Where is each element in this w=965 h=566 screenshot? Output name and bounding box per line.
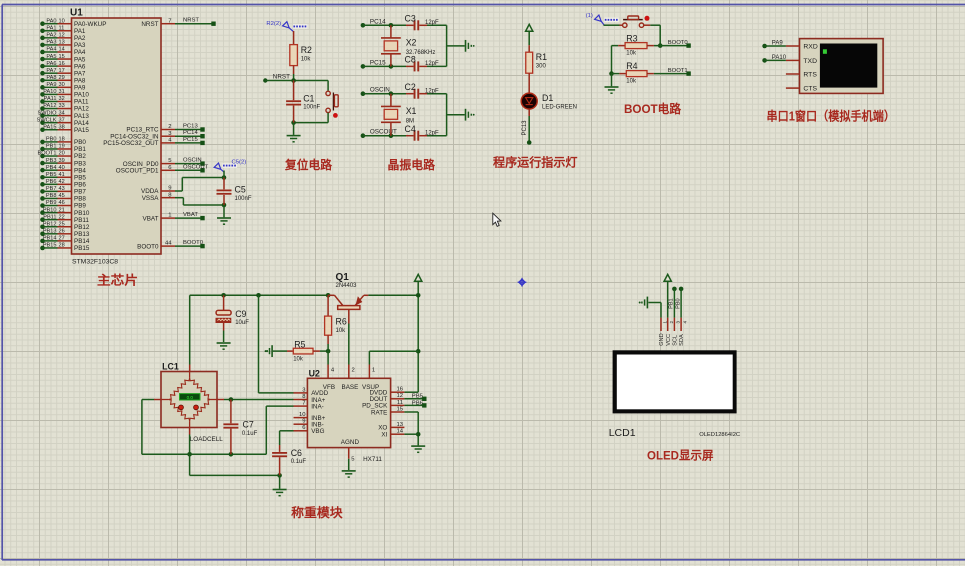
svg-text:RATE: RATE	[371, 409, 387, 416]
svg-text:PB15: PB15	[74, 245, 90, 252]
svg-text:PA2: PA2	[46, 33, 56, 39]
svg-text:PA3: PA3	[74, 42, 86, 49]
svg-text:27: 27	[59, 236, 65, 242]
svg-text:PA9: PA9	[74, 85, 86, 92]
svg-text:PB1: PB1	[74, 146, 86, 153]
svg-text:PA15: PA15	[43, 124, 56, 130]
svg-text:PB13: PB13	[43, 229, 57, 235]
svg-text:OLED12864I2C: OLED12864I2C	[699, 432, 740, 438]
svg-text:PB3: PB3	[74, 160, 86, 167]
svg-text:4: 4	[682, 321, 687, 324]
svg-text:PB8: PB8	[46, 193, 57, 199]
svg-text:32: 32	[59, 96, 65, 102]
svg-text:U1: U1	[70, 8, 83, 19]
svg-text:PB6: PB6	[46, 179, 57, 185]
svg-text:PB6: PB6	[74, 182, 86, 189]
svg-text:PA7: PA7	[46, 68, 56, 74]
svg-text:39: 39	[59, 158, 65, 164]
svg-text:4: 4	[331, 367, 335, 373]
svg-text:9: 9	[168, 186, 171, 192]
svg-text:PA0-WKUP: PA0-WKUP	[74, 21, 106, 28]
svg-text:RTS: RTS	[803, 71, 817, 78]
svg-text:CTS: CTS	[803, 86, 817, 93]
svg-text:PC15: PC15	[183, 137, 198, 143]
svg-text:晶振电路: 晶振电路	[388, 157, 436, 172]
svg-text:PB0: PB0	[74, 139, 86, 146]
svg-text:PB7: PB7	[46, 186, 57, 192]
svg-text:C5(2): C5(2)	[232, 159, 247, 165]
svg-text:PA5: PA5	[74, 56, 86, 63]
svg-text:100nF: 100nF	[235, 196, 252, 202]
svg-text:BOOT0: BOOT0	[183, 240, 204, 246]
svg-text:PA14: PA14	[74, 120, 89, 127]
svg-text:HX711: HX711	[363, 456, 382, 463]
svg-text:12pF: 12pF	[425, 20, 439, 26]
svg-text:3: 3	[676, 321, 681, 324]
svg-text:7: 7	[302, 401, 305, 407]
svg-text:20: 20	[59, 151, 65, 157]
svg-text:C7: C7	[243, 419, 254, 429]
svg-text:PB4: PB4	[74, 167, 86, 174]
svg-text:30: 30	[59, 82, 65, 88]
svg-text:XI: XI	[381, 432, 387, 439]
svg-text:32.768KHz: 32.768KHz	[406, 50, 436, 56]
svg-text:NRST: NRST	[183, 18, 199, 24]
svg-text:PB5: PB5	[412, 393, 424, 399]
svg-text:PA1: PA1	[46, 25, 56, 31]
svg-text:PA4: PA4	[74, 49, 86, 56]
svg-text:R4: R4	[626, 61, 637, 71]
svg-text:PB6: PB6	[412, 400, 424, 406]
svg-text:PB10: PB10	[43, 207, 57, 213]
svg-text:PA10: PA10	[43, 89, 56, 95]
svg-text:14: 14	[59, 47, 65, 53]
svg-text:PC15-OSC32_OUT: PC15-OSC32_OUT	[103, 140, 158, 147]
svg-text:X2: X2	[406, 37, 417, 47]
svg-text:VSSA: VSSA	[142, 195, 160, 202]
svg-text:44: 44	[165, 241, 172, 247]
svg-text:PA5: PA5	[46, 54, 56, 60]
svg-text:BOOT0: BOOT0	[137, 243, 159, 250]
svg-text:STM32F103C8: STM32F103C8	[72, 259, 118, 266]
svg-text:主芯片: 主芯片	[97, 273, 138, 288]
svg-text:C1: C1	[303, 93, 314, 103]
svg-text:OSCIN: OSCIN	[183, 158, 202, 164]
svg-text:10k: 10k	[336, 328, 347, 334]
svg-text:RXD: RXD	[803, 43, 817, 50]
svg-text:1: 1	[168, 213, 171, 219]
svg-text:37: 37	[59, 117, 65, 123]
svg-text:PC14: PC14	[370, 18, 386, 25]
svg-text:16: 16	[59, 61, 65, 67]
svg-text:X1: X1	[406, 106, 417, 116]
svg-text:(1): (1)	[586, 13, 593, 19]
svg-text:PB5: PB5	[74, 174, 86, 181]
svg-text:PB1: PB1	[46, 144, 57, 150]
svg-text:SWCLK: SWCLK	[37, 117, 57, 123]
svg-text:PA6: PA6	[74, 63, 86, 70]
svg-text:PA13: PA13	[74, 113, 89, 120]
svg-text:OSCOUT_PD1: OSCOUT_PD1	[116, 168, 159, 175]
svg-text:PB0: PB0	[46, 137, 57, 143]
svg-text:8M: 8M	[406, 119, 414, 125]
svg-text:LED-GREEN: LED-GREEN	[542, 105, 577, 111]
svg-text:15: 15	[396, 406, 403, 412]
svg-text:10k: 10k	[626, 51, 637, 57]
svg-text:43: 43	[59, 186, 65, 192]
svg-text:46: 46	[59, 200, 65, 206]
svg-text:10: 10	[59, 18, 65, 24]
svg-text:PA9: PA9	[46, 82, 56, 88]
svg-text:NRST: NRST	[273, 74, 290, 81]
svg-text:2: 2	[352, 367, 355, 373]
svg-text:PB14: PB14	[43, 236, 57, 242]
svg-text:PB11: PB11	[74, 217, 89, 224]
svg-text:PA12: PA12	[43, 103, 56, 109]
svg-text:PB14: PB14	[74, 238, 90, 245]
svg-text:12pF: 12pF	[425, 88, 439, 94]
svg-text:R2(2): R2(2)	[266, 21, 281, 27]
svg-text:BOOT1: BOOT1	[668, 68, 688, 74]
svg-text:PA10: PA10	[772, 55, 787, 61]
svg-text:OLED显示屏: OLED显示屏	[647, 449, 714, 463]
svg-text:PB2: PB2	[74, 153, 86, 160]
svg-text:12pF: 12pF	[425, 130, 439, 136]
svg-text:PB12: PB12	[74, 224, 90, 231]
svg-text:C2: C2	[405, 82, 416, 92]
svg-text:42: 42	[59, 179, 65, 185]
svg-text:28: 28	[59, 243, 65, 249]
svg-text:PA6: PA6	[46, 61, 56, 67]
svg-text:13: 13	[59, 40, 65, 46]
svg-text:PB4: PB4	[46, 165, 57, 171]
svg-text:C4: C4	[405, 124, 416, 134]
svg-text:10: 10	[299, 412, 306, 418]
svg-text:PA10: PA10	[74, 92, 89, 99]
svg-text:10k: 10k	[301, 57, 312, 63]
svg-text:38: 38	[59, 124, 65, 130]
svg-text:0.1uF: 0.1uF	[291, 459, 307, 465]
svg-text:C5: C5	[235, 185, 246, 195]
svg-text:15: 15	[59, 54, 65, 60]
svg-text:PB0: PB0	[675, 298, 681, 309]
svg-text:12: 12	[396, 393, 403, 399]
svg-text:VBG: VBG	[311, 428, 324, 435]
svg-text:PA3: PA3	[46, 40, 56, 46]
svg-text:31: 31	[59, 89, 65, 95]
svg-text:0.1uF: 0.1uF	[242, 431, 258, 437]
svg-text:PA15: PA15	[74, 127, 89, 134]
svg-text:C9: C9	[235, 309, 246, 319]
svg-text:34: 34	[59, 110, 65, 116]
svg-text:PA2: PA2	[74, 35, 86, 42]
svg-text:7: 7	[168, 18, 171, 24]
svg-text:NRST: NRST	[141, 21, 158, 28]
svg-text:PA8: PA8	[74, 77, 86, 84]
svg-text:29: 29	[59, 75, 65, 81]
svg-text:22: 22	[59, 214, 65, 220]
svg-text:VCC: VCC	[666, 334, 672, 346]
svg-text:41: 41	[59, 172, 65, 178]
svg-text:OSCOUT: OSCOUT	[183, 164, 209, 170]
svg-text:9: 9	[302, 419, 305, 425]
svg-text:40: 40	[59, 165, 65, 171]
svg-text:33: 33	[59, 103, 65, 109]
svg-text:PC13: PC13	[183, 124, 198, 130]
svg-text:PB8: PB8	[74, 196, 86, 203]
svg-text:PC13: PC13	[522, 120, 528, 136]
svg-text:PB1: PB1	[669, 298, 675, 309]
svg-text:PA11: PA11	[44, 96, 57, 102]
svg-text:BOOT1: BOOT1	[38, 151, 57, 157]
svg-text:串口1窗口（模拟手机端）: 串口1窗口（模拟手机端）	[767, 108, 896, 123]
svg-text:R6: R6	[336, 316, 347, 326]
svg-text:PB12: PB12	[43, 221, 57, 227]
svg-text:13: 13	[396, 422, 403, 428]
svg-text:C3: C3	[405, 14, 416, 24]
svg-text:LCD1: LCD1	[609, 427, 636, 439]
svg-text:5: 5	[351, 456, 355, 462]
svg-text:14: 14	[396, 429, 403, 435]
svg-text:PA1: PA1	[74, 28, 86, 35]
svg-text:2N4403: 2N4403	[336, 283, 358, 289]
svg-text:PC15: PC15	[370, 59, 386, 66]
svg-text:INA-: INA-	[311, 403, 324, 410]
svg-text:OSCIN: OSCIN	[370, 87, 390, 94]
svg-text:45: 45	[59, 193, 65, 199]
svg-text:C6: C6	[291, 448, 302, 458]
svg-text:GND: GND	[659, 333, 665, 345]
svg-text:12pF: 12pF	[425, 61, 439, 67]
svg-text:PC14: PC14	[183, 130, 198, 136]
svg-text:25: 25	[59, 221, 65, 227]
svg-text:PB10: PB10	[74, 210, 90, 217]
svg-text:U2: U2	[309, 369, 320, 379]
svg-text:PA12: PA12	[74, 106, 89, 113]
svg-text:10k: 10k	[626, 79, 637, 85]
svg-text:BOOT0: BOOT0	[668, 40, 689, 46]
svg-text:复位电路: 复位电路	[284, 157, 333, 172]
svg-text:26: 26	[59, 229, 65, 235]
svg-text:11: 11	[59, 25, 65, 31]
svg-text:11: 11	[397, 400, 403, 406]
svg-text:BASE: BASE	[342, 384, 359, 391]
svg-text:VBAT: VBAT	[143, 215, 159, 222]
svg-text:PA11: PA11	[74, 99, 89, 106]
svg-text:19: 19	[59, 144, 65, 150]
svg-text:PB15: PB15	[43, 243, 57, 249]
svg-text:SDA: SDA	[679, 334, 685, 346]
svg-text:16: 16	[396, 387, 403, 393]
svg-text:SCL: SCL	[673, 335, 679, 346]
svg-text:18: 18	[59, 137, 65, 143]
svg-text:PB11: PB11	[43, 214, 56, 220]
svg-text:10uF: 10uF	[235, 320, 249, 326]
svg-text:PA4: PA4	[46, 47, 56, 53]
svg-text:BOOT电路: BOOT电路	[624, 101, 682, 116]
svg-text:LC1: LC1	[162, 362, 179, 372]
svg-text:2: 2	[168, 124, 171, 130]
svg-text:D1: D1	[542, 93, 553, 103]
svg-text:PA0: PA0	[46, 18, 56, 24]
svg-text:R5: R5	[294, 339, 305, 349]
svg-text:称重模块: 称重模块	[291, 505, 343, 520]
svg-text:PB3: PB3	[46, 158, 57, 164]
svg-text:1: 1	[372, 367, 375, 373]
svg-text:PA8: PA8	[46, 75, 56, 81]
svg-text:300: 300	[536, 64, 547, 70]
svg-text:Q1: Q1	[336, 272, 350, 283]
svg-text:PA9: PA9	[772, 41, 784, 47]
svg-text:21: 21	[59, 207, 65, 213]
svg-text:VBAT: VBAT	[183, 212, 198, 218]
svg-text:PB9: PB9	[74, 203, 86, 210]
svg-text:PB7: PB7	[74, 189, 86, 196]
svg-text:TXD: TXD	[803, 58, 817, 65]
svg-text:R3: R3	[626, 33, 637, 43]
svg-text:PB9: PB9	[46, 200, 57, 206]
svg-text:R1: R1	[536, 52, 547, 62]
svg-text:17: 17	[59, 68, 65, 74]
svg-text:R2: R2	[301, 45, 312, 55]
svg-text:PB13: PB13	[74, 231, 90, 238]
svg-text:12: 12	[59, 33, 65, 39]
svg-text:程序运行指示灯: 程序运行指示灯	[493, 155, 578, 170]
svg-text:1: 1	[662, 321, 667, 324]
svg-text:LOADCELL: LOADCELL	[190, 436, 223, 443]
svg-text:10k: 10k	[293, 356, 304, 362]
svg-text:2: 2	[669, 321, 674, 324]
svg-text:100nF: 100nF	[303, 105, 320, 111]
svg-text:SWDIO: SWDIO	[38, 110, 58, 116]
svg-text:0.0: 0.0	[187, 395, 194, 400]
svg-text:PB5: PB5	[46, 172, 57, 178]
svg-text:AGND: AGND	[341, 439, 360, 446]
svg-text:PA7: PA7	[74, 70, 86, 77]
